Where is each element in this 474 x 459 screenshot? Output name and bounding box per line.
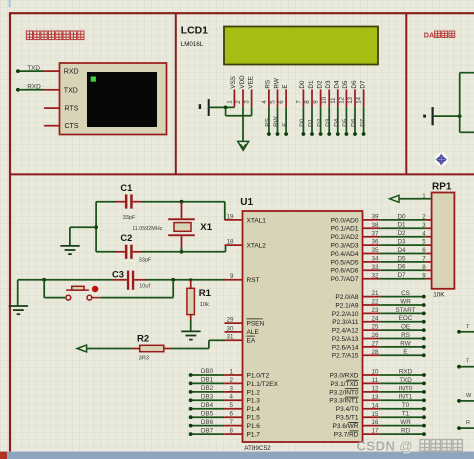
U1 pin 22 P2.1/A9	[335, 299, 380, 310]
svg-text:27: 27	[372, 341, 379, 348]
svg-text:2: 2	[235, 100, 242, 104]
svg-text:28: 28	[372, 349, 379, 356]
svg-text:TXD: TXD	[64, 87, 78, 94]
U1 pin 14 P3.4/T0	[336, 402, 380, 413]
svg-text:D4: D4	[334, 118, 341, 127]
U1 pin 17 P3.7/RD	[334, 428, 380, 439]
virtual terminal body	[60, 63, 167, 135]
svg-text:30: 30	[227, 325, 234, 332]
svg-text:11.0592MHz: 11.0592MHz	[132, 226, 162, 232]
LCD pin 13 D6	[347, 80, 358, 107]
LCD pin 2 VDD	[235, 75, 246, 107]
svg-text:P0.3/AD3: P0.3/AD3	[331, 243, 359, 250]
svg-text:DB5: DB5	[201, 410, 214, 417]
svg-text:T: T	[466, 324, 470, 330]
svg-text:12: 12	[372, 386, 379, 393]
svg-text:P0.7/AD7: P0.7/AD7	[331, 276, 359, 283]
section divider vertical 1	[175, 13, 177, 174]
svg-text:VEE: VEE	[247, 76, 254, 89]
wire D3 to RP1	[380, 239, 431, 246]
svg-text:P1.2: P1.2	[247, 389, 261, 396]
svg-text:9: 9	[422, 272, 426, 279]
LCD pin 6 E	[278, 84, 289, 107]
U1 pin 16 P3.6/WR	[332, 419, 380, 430]
wire START net	[380, 307, 425, 316]
wire INT0 net	[380, 385, 426, 394]
wire C2 right to XTAL2	[142, 245, 226, 252]
svg-text:3: 3	[422, 222, 426, 229]
wire LCD net E	[282, 107, 289, 136]
svg-text:P2.1/A9: P2.1/A9	[335, 302, 359, 309]
svg-text:15: 15	[372, 411, 379, 418]
svg-text:VDD: VDD	[239, 75, 246, 89]
svg-text:36: 36	[372, 239, 379, 246]
wire C1 right to XTAL1	[142, 202, 225, 220]
wire LCD net D5	[342, 107, 349, 136]
U1 pin 13 P3.3/INT1	[329, 394, 380, 405]
svg-text:13: 13	[347, 96, 354, 103]
svg-text:25: 25	[372, 324, 379, 331]
svg-text:19: 19	[227, 213, 234, 220]
svg-text:ALE: ALE	[247, 329, 260, 336]
U1 pin 11 P3.1/TXD	[330, 377, 380, 388]
wire C3 to RST	[146, 279, 226, 281]
section divider horizontal	[9, 173, 474, 175]
svg-text:1: 1	[226, 100, 233, 104]
ground arrow under LCD	[238, 141, 249, 150]
svg-text:26: 26	[372, 332, 379, 339]
resistor R2	[132, 345, 171, 351]
svg-text:P3.3/INT1: P3.3/INT1	[329, 398, 359, 405]
svg-text:P1.5: P1.5	[247, 415, 261, 422]
svg-text:P0.2/AD2: P0.2/AD2	[331, 234, 359, 241]
svg-text:T: T	[466, 359, 470, 365]
power symbol DA section	[423, 107, 434, 125]
wire RS net	[380, 332, 425, 341]
svg-text:P3.1/TXD: P3.1/TXD	[330, 381, 358, 388]
wire LCD net D0	[299, 107, 306, 136]
wire D7 to RP1	[380, 272, 431, 279]
RP1 pin 1 wire and arrow	[390, 193, 432, 202]
svg-text:RS: RS	[265, 80, 272, 89]
svg-text:D2: D2	[397, 230, 406, 237]
wire DB3	[189, 394, 224, 403]
wire LCD net D3	[325, 107, 332, 136]
wire RXD net	[380, 368, 426, 377]
svg-text:P0.6/AD6: P0.6/AD6	[331, 268, 359, 275]
svg-text:RW: RW	[273, 78, 280, 88]
terminal cursor	[91, 77, 96, 82]
svg-text:P1.1/T2EX: P1.1/T2EX	[247, 381, 279, 388]
wire T1 net	[380, 411, 426, 420]
svg-text:DA: DA	[424, 30, 434, 39]
svg-text:T1: T1	[402, 411, 410, 418]
svg-text:D1: D1	[397, 222, 406, 229]
svg-text:OE: OE	[401, 324, 410, 331]
svg-text:P1.7: P1.7	[247, 432, 261, 439]
wire LCD net D1	[308, 107, 315, 136]
svg-text:3: 3	[244, 100, 251, 104]
input arrow EA	[77, 345, 86, 352]
svg-text:P1.3: P1.3	[247, 398, 261, 405]
U1 pin 32 P0.7/AD7	[331, 272, 381, 283]
svg-text:TXD: TXD	[399, 377, 412, 384]
U1 pin 4 P1.3	[224, 394, 260, 405]
svg-text:XTAL2: XTAL2	[247, 243, 267, 250]
U1 pin 7 P1.6	[224, 419, 260, 430]
wire LCD net RW	[273, 107, 280, 136]
svg-text:37: 37	[372, 230, 379, 237]
wire DB1	[189, 377, 224, 386]
svg-text:11: 11	[330, 97, 337, 104]
svg-text:10: 10	[372, 369, 379, 376]
svg-text:INT1: INT1	[399, 394, 413, 401]
crystal X1	[168, 202, 195, 247]
LCD pin 12 D5	[338, 80, 349, 107]
U1 pin 6 P1.5	[224, 411, 260, 422]
svg-text:2: 2	[230, 377, 234, 384]
wire D4 to RP1	[380, 247, 431, 254]
wire DA component left edge	[460, 73, 474, 133]
svg-text:D6: D6	[351, 80, 358, 89]
svg-text:P3.5/T1: P3.5/T1	[336, 415, 359, 422]
node X1 bottom	[180, 250, 184, 254]
U1 pin 18 XTAL2 stub	[225, 239, 243, 246]
node left rail	[94, 225, 98, 229]
sheet border left	[9, 12, 11, 451]
svg-text:P1.6: P1.6	[247, 423, 261, 430]
svg-text:9: 9	[230, 273, 234, 280]
svg-text:33pF: 33pF	[139, 257, 152, 263]
svg-text:TXD: TXD	[27, 65, 40, 72]
wire D5 to RP1	[380, 255, 431, 262]
svg-text:7: 7	[295, 100, 302, 104]
wire D2 to RP1	[380, 230, 431, 237]
wire arrow to R2	[87, 348, 133, 350]
svg-text:14: 14	[356, 96, 363, 103]
U1 pin 35 P0.4/AD4	[331, 247, 381, 258]
svg-text:P1.0/T2: P1.0/T2	[247, 372, 270, 379]
svg-text:P2.4/A12: P2.4/A12	[332, 328, 359, 335]
section title DA转换器	[424, 30, 455, 39]
capacitor C3	[113, 271, 146, 290]
U1 body AT89C52	[243, 211, 363, 442]
svg-text:18: 18	[227, 239, 234, 246]
svg-text:9: 9	[313, 100, 320, 104]
svg-text:D3: D3	[397, 239, 406, 246]
svg-text:10: 10	[321, 96, 328, 103]
wire RST net mid	[44, 279, 112, 281]
wire DB0	[189, 368, 224, 377]
svg-text:6: 6	[278, 100, 285, 104]
svg-text:D3: D3	[325, 80, 332, 89]
U1 pin name EA	[247, 336, 256, 345]
wire VSS/VEE down	[226, 107, 252, 115]
U1 pin 1 P1.0/T2	[224, 368, 269, 379]
svg-text:38: 38	[372, 222, 379, 229]
svg-text:DB3: DB3	[201, 394, 214, 401]
svg-text:AT89C52: AT89C52	[244, 445, 271, 452]
U1 pin 27 P2.6/A14	[332, 341, 380, 352]
wire D6 to RP1	[380, 264, 431, 271]
wire RST net left	[18, 280, 45, 306]
svg-text:WR: WR	[400, 298, 411, 305]
svg-text:5: 5	[270, 100, 277, 104]
svg-text:P3.4/T0: P3.4/T0	[336, 406, 359, 413]
wire DB2	[189, 385, 224, 394]
node R1 tap	[189, 278, 192, 281]
svg-text:DB0: DB0	[201, 368, 214, 375]
wire DB7	[189, 427, 224, 436]
wire TXD net	[18, 70, 44, 72]
wire CS net	[380, 290, 425, 299]
U1 pin 31 EA stub	[225, 334, 243, 341]
svg-text:W: W	[466, 393, 472, 399]
svg-text:11: 11	[372, 377, 379, 384]
svg-text:D6: D6	[397, 264, 406, 271]
wire rail to ground	[70, 227, 96, 246]
svg-text:RXD: RXD	[27, 84, 41, 91]
svg-text:INT0: INT0	[399, 385, 413, 392]
svg-text:7: 7	[230, 419, 234, 426]
U1 pin 9 RST stub	[225, 273, 243, 280]
LCD pin 1 VSS	[226, 76, 237, 107]
svg-text:P3.6/WR: P3.6/WR	[332, 423, 358, 430]
svg-text:3R3: 3R3	[139, 355, 150, 361]
LCD pin 7 D0	[295, 80, 306, 107]
svg-text:RTS: RTS	[65, 106, 79, 113]
wire TXD net	[380, 377, 426, 386]
svg-text:P0.0/AD0: P0.0/AD0	[331, 217, 359, 224]
svg-text:PSEN: PSEN	[247, 320, 265, 327]
node RXD	[16, 88, 20, 92]
svg-text:DB2: DB2	[201, 385, 214, 392]
svg-text:8: 8	[422, 264, 426, 271]
svg-text:2: 2	[422, 214, 426, 221]
wire WR net	[380, 298, 425, 307]
wire right edge T net	[457, 324, 474, 334]
svg-text:CTS: CTS	[65, 123, 79, 130]
wire power to VSS	[210, 106, 235, 110]
svg-text:RXD: RXD	[64, 69, 79, 76]
svg-text:33pF: 33pF	[123, 215, 136, 221]
button actuator red dot	[92, 286, 98, 292]
wire LCD net D4	[334, 107, 341, 136]
wire R1 to ground	[190, 320, 192, 331]
svg-text:34: 34	[372, 256, 379, 263]
wire D0 to RP1	[380, 213, 431, 220]
U1 pin 15 P3.5/T1	[336, 411, 380, 422]
terminal pin stub TXD	[44, 89, 59, 91]
svg-text:35: 35	[372, 247, 379, 254]
wire X1 bottom	[181, 247, 183, 252]
svg-text:13: 13	[372, 394, 379, 401]
svg-text:R2: R2	[137, 333, 149, 344]
svg-text:C2: C2	[120, 232, 132, 243]
svg-text:17: 17	[372, 428, 379, 435]
svg-text:P0.5/AD5: P0.5/AD5	[331, 259, 359, 266]
svg-text:8: 8	[230, 428, 234, 435]
svg-text:7: 7	[422, 256, 426, 263]
svg-text:P3.0/RXD: P3.0/RXD	[330, 372, 359, 379]
svg-text:R1: R1	[199, 288, 212, 299]
U1 pin 12 P3.2/INT0	[329, 386, 380, 397]
svg-text:P0.1/AD1: P0.1/AD1	[331, 226, 359, 233]
virtual terminal screen	[87, 72, 157, 127]
U1 pin 34 P0.5/AD5	[331, 256, 381, 267]
svg-text:32: 32	[372, 272, 379, 279]
svg-text:CSDN @: CSDN @	[357, 439, 413, 454]
U1 pin 26 P2.5/A13	[332, 332, 380, 343]
svg-text:P3.7/RD: P3.7/RD	[334, 432, 359, 439]
wire button to RST node	[100, 280, 173, 298]
U1 pin 39 P0.0/AD0	[331, 214, 381, 225]
svg-text:1: 1	[422, 193, 425, 199]
svg-text:P3.2/INT0: P3.2/INT0	[329, 389, 359, 396]
wire RXD net	[18, 89, 44, 91]
LCD pin 8 D1	[304, 80, 315, 107]
svg-text:U1: U1	[240, 197, 253, 208]
svg-text:4: 4	[230, 394, 234, 401]
svg-text:E: E	[282, 123, 289, 127]
svg-text:12: 12	[338, 96, 345, 103]
ground reset left	[9, 306, 28, 314]
svg-text:10K: 10K	[433, 291, 445, 298]
svg-text:D0: D0	[299, 80, 306, 89]
U1 pin name PSEN	[247, 319, 265, 328]
svg-text:29: 29	[227, 317, 234, 324]
ground R1	[181, 331, 200, 339]
LCD pin 11 D4	[330, 80, 341, 107]
wire DB4	[189, 402, 224, 411]
svg-text:24: 24	[372, 315, 379, 322]
U1 pin 10 P3.0/RXD	[330, 369, 381, 380]
U1 pin 8 P1.7	[224, 428, 260, 439]
svg-text:LCD1: LCD1	[181, 26, 208, 37]
svg-text:DB1: DB1	[201, 377, 214, 384]
svg-text:P1.4: P1.4	[247, 406, 261, 413]
LCD1 screen	[224, 27, 378, 65]
svg-text:D7: D7	[397, 272, 406, 279]
svg-text:EA: EA	[247, 338, 256, 345]
svg-text:8: 8	[304, 100, 311, 104]
LCD pin 9 D2	[313, 80, 324, 107]
svg-text:D3: D3	[325, 118, 332, 127]
ground oscillator	[60, 246, 79, 254]
LCD pin 4 RS	[261, 80, 272, 107]
svg-text:LM016L: LM016L	[181, 41, 204, 48]
wire EOC net	[380, 315, 425, 323]
svg-text:T0: T0	[402, 402, 410, 409]
wire LCD net D7	[359, 107, 366, 136]
svg-text:P2.7/A15: P2.7/A15	[332, 353, 359, 360]
svg-text:RW: RW	[273, 116, 280, 126]
U1 pin 38 P0.1/AD1	[331, 222, 381, 233]
U1 pin 30 ALE stub	[225, 325, 243, 332]
svg-text:E: E	[282, 84, 289, 88]
svg-text:P2.6/A14: P2.6/A14	[332, 344, 359, 351]
svg-text:5: 5	[230, 402, 234, 409]
U1 pin 28 P2.7/A15	[332, 349, 380, 360]
svg-text:P2.5/A13: P2.5/A13	[332, 336, 359, 343]
U1 pin 37 P0.2/AD2	[331, 230, 381, 241]
svg-text:P2.2/A10: P2.2/A10	[332, 311, 359, 318]
wire C1C2 left rail	[95, 202, 97, 252]
svg-text:RP1: RP1	[432, 181, 452, 192]
svg-text:D0: D0	[299, 118, 306, 127]
U1 pin 5 P1.4	[224, 402, 260, 413]
wire RW net	[380, 340, 425, 349]
svg-text:D1: D1	[308, 80, 315, 89]
wire DB6	[189, 419, 224, 428]
svg-text:31: 31	[227, 334, 234, 341]
svg-text:P2.3/A11: P2.3/A11	[332, 319, 359, 326]
svg-text:D1: D1	[308, 118, 315, 127]
wire C1 left	[96, 201, 116, 203]
svg-text:R: R	[466, 420, 470, 426]
wire LCD net D2	[316, 107, 323, 136]
wire R2 to EA pin	[171, 340, 225, 348]
wire INT1 net	[380, 394, 426, 402]
svg-text:DB6: DB6	[201, 419, 214, 426]
svg-text:C1: C1	[120, 182, 132, 193]
section title 终端模拟串口通信	[26, 31, 84, 40]
svg-text:RXD: RXD	[399, 368, 413, 375]
LCD pin 3 VEE	[244, 76, 255, 107]
section divider vertical 2	[405, 13, 407, 174]
wire E net	[380, 349, 425, 357]
svg-text:D7: D7	[359, 118, 366, 127]
svg-text:DB4: DB4	[201, 402, 214, 409]
svg-text:33: 33	[372, 264, 379, 271]
svg-text:X1: X1	[200, 222, 212, 233]
LCD pin 10 D3	[321, 80, 332, 107]
svg-text:DB7: DB7	[201, 427, 214, 434]
capacitor C1	[116, 194, 142, 208]
svg-text:XTAL1: XTAL1	[247, 217, 267, 224]
U1 pin 33 P0.6/AD6	[331, 264, 381, 275]
U1 pin 2 P1.1/T2EX	[224, 377, 278, 388]
svg-text:D7: D7	[359, 80, 366, 89]
svg-text:D0: D0	[397, 213, 406, 220]
svg-text:39: 39	[372, 214, 379, 221]
svg-text:14: 14	[372, 402, 379, 409]
wire WR net	[380, 419, 426, 428]
svg-text:RS: RS	[401, 332, 410, 339]
svg-text:CS: CS	[401, 290, 410, 297]
svg-text:D2: D2	[316, 118, 323, 127]
svg-text:D5: D5	[397, 255, 406, 262]
svg-text:6: 6	[422, 247, 426, 254]
svg-text:16: 16	[372, 419, 379, 426]
svg-text:VSS: VSS	[230, 76, 237, 89]
node RST right	[171, 278, 175, 282]
svg-text:WR: WR	[400, 419, 411, 426]
wire OE net	[380, 324, 425, 333]
svg-text:P2.0/A8: P2.0/A8	[335, 294, 359, 301]
svg-text:21: 21	[372, 290, 379, 297]
resistor pack RP1 body	[432, 193, 455, 289]
wire right edge T net	[457, 359, 474, 369]
wire LCD net RS	[265, 107, 272, 136]
svg-text:RS: RS	[265, 118, 272, 127]
U1 pin 19 XTAL1 stub	[225, 213, 243, 220]
terminal pin stub RXD	[44, 70, 59, 72]
svg-text:E: E	[403, 349, 407, 356]
LCD pin 14 D7	[356, 80, 367, 107]
svg-text:D5: D5	[342, 118, 349, 127]
wire VDD to ground arrow	[242, 107, 244, 141]
